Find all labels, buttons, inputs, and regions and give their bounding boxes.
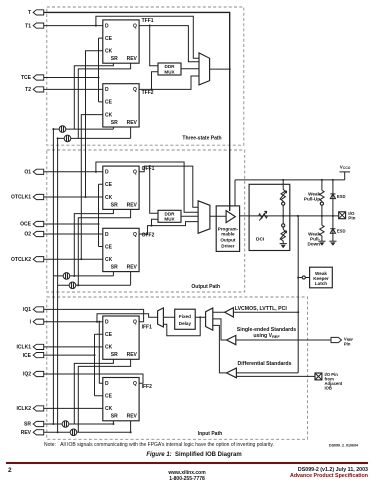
svg-text:ICLK2: ICLK2 <box>17 406 32 412</box>
svg-text:ICLK1: ICLK1 <box>17 345 32 351</box>
svg-text:OFF2: OFF2 <box>142 233 155 239</box>
svg-text:DDR: DDR <box>165 211 176 216</box>
svg-text:D: D <box>105 381 109 387</box>
svg-text:Latch: Latch <box>315 281 327 286</box>
svg-text:Delay: Delay <box>179 321 192 326</box>
svg-text:CK: CK <box>105 406 113 412</box>
svg-text:Pull-Up: Pull-Up <box>304 197 320 202</box>
svg-text:Differential Standards: Differential Standards <box>238 361 292 367</box>
svg-text:Q: Q <box>133 381 137 387</box>
svg-text:LVCMOS, LVTTL, PCI: LVCMOS, LVTTL, PCI <box>235 306 288 312</box>
svg-text:CE: CE <box>105 182 113 188</box>
svg-text:I: I <box>30 319 32 325</box>
svg-text:SR: SR <box>24 422 31 428</box>
svg-text:REV: REV <box>127 265 138 271</box>
svg-text:Pin: Pin <box>344 341 351 346</box>
svg-text:REV: REV <box>127 120 138 126</box>
svg-text:O1: O1 <box>24 170 31 176</box>
svg-text:REV: REV <box>127 352 138 358</box>
svg-text:CE: CE <box>105 100 113 106</box>
svg-text:CE: CE <box>105 36 113 42</box>
svg-text:SR: SR <box>111 352 118 358</box>
svg-text:D: D <box>105 87 109 93</box>
svg-text:Q: Q <box>133 170 137 176</box>
svg-text:O2: O2 <box>24 232 31 238</box>
svg-text:mable: mable <box>221 232 235 237</box>
svg-text:IFF1: IFF1 <box>142 325 152 331</box>
svg-text:CK: CK <box>105 112 113 118</box>
svg-text:REV: REV <box>21 430 32 436</box>
svg-text:T: T <box>28 10 31 16</box>
svg-text:ICE: ICE <box>23 353 32 359</box>
svg-text:using VREF: using VREF <box>253 333 280 339</box>
svg-text:SR: SR <box>111 414 118 420</box>
svg-text:Q: Q <box>133 23 137 29</box>
svg-text:VCCO: VCCO <box>340 164 351 170</box>
svg-text:OFF1: OFF1 <box>142 166 155 172</box>
svg-text:D: D <box>105 23 109 29</box>
svg-text:SR: SR <box>111 120 118 126</box>
svg-text:REV: REV <box>127 56 138 62</box>
svg-text:D: D <box>105 170 109 176</box>
svg-text:Q: Q <box>133 320 137 326</box>
svg-text:ESD: ESD <box>337 194 346 199</box>
svg-text:D: D <box>105 320 109 326</box>
svg-text:CE: CE <box>105 244 113 250</box>
svg-text:MUX: MUX <box>164 217 175 222</box>
svg-text:OCE: OCE <box>20 222 32 228</box>
svg-text:IQ2: IQ2 <box>23 372 31 378</box>
svg-text:SR: SR <box>111 265 118 271</box>
svg-text:OTCLK2: OTCLK2 <box>11 257 31 263</box>
svg-text:CK: CK <box>105 49 113 55</box>
svg-text:TFF2: TFF2 <box>142 90 154 96</box>
svg-text:OTCLK1: OTCLK1 <box>11 195 31 201</box>
svg-text:DS099_2_010604: DS099_2_010604 <box>329 444 358 448</box>
svg-text:DCI: DCI <box>256 237 265 243</box>
svg-text:REV: REV <box>127 202 138 208</box>
svg-text:TCE: TCE <box>21 75 32 81</box>
svg-text:T2: T2 <box>25 87 31 93</box>
svg-text:IOB: IOB <box>325 385 332 390</box>
svg-text:Q: Q <box>133 87 137 93</box>
svg-text:Output: Output <box>220 238 236 243</box>
svg-text:SR: SR <box>111 202 118 208</box>
svg-text:Output Path: Output Path <box>191 284 220 290</box>
svg-text:IFF2: IFF2 <box>142 384 152 390</box>
svg-text:ESD: ESD <box>337 229 346 234</box>
svg-text:CK: CK <box>105 257 113 263</box>
svg-text:D: D <box>105 232 109 238</box>
svg-text:Driver: Driver <box>221 243 234 248</box>
svg-text:Fixed: Fixed <box>179 314 191 319</box>
svg-text:Input Path: Input Path <box>198 431 222 437</box>
svg-text:T1: T1 <box>25 23 31 29</box>
svg-text:CE: CE <box>105 394 113 400</box>
svg-text:CK: CK <box>105 345 113 351</box>
svg-text:Down: Down <box>307 242 320 247</box>
svg-text:Three-state Path: Three-state Path <box>182 136 221 142</box>
svg-text:DDR: DDR <box>165 64 176 69</box>
svg-text:IQ1: IQ1 <box>23 307 31 313</box>
svg-text:Q: Q <box>133 232 137 238</box>
svg-text:REV: REV <box>127 414 138 420</box>
svg-text:MUX: MUX <box>164 69 175 74</box>
svg-text:CE: CE <box>105 332 113 338</box>
svg-text:SR: SR <box>111 56 118 62</box>
svg-text:Pin: Pin <box>348 216 355 221</box>
svg-text:TFF1: TFF1 <box>142 18 154 24</box>
svg-text:CK: CK <box>105 195 113 201</box>
